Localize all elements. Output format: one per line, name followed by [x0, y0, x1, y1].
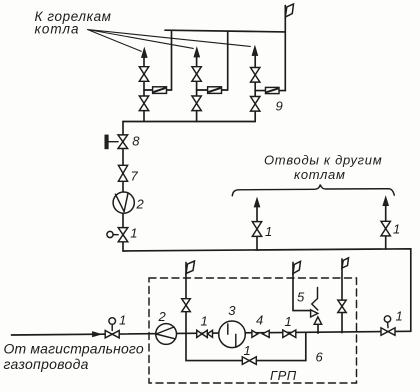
valve branch2 upper [192, 67, 201, 82]
arrow to burner 3 [252, 46, 258, 56]
text: К горелкам котла [35, 9, 112, 37]
valve branch3 lower (9) [251, 97, 260, 112]
svg-text:7: 7 [131, 169, 139, 184]
burner branch 1 pipe [143, 52, 145, 122]
svg-text:1: 1 [119, 313, 126, 328]
outlet valve 1c (plug handle) [387, 322, 389, 328]
vent riser 1 pipe (GRP) [185, 263, 187, 335]
callout leader lines to burner branches [88, 30, 251, 52]
arrow branch L [254, 198, 260, 207]
svg-text:котлам: котлам [294, 167, 346, 182]
svg-text:3: 3 [228, 303, 236, 318]
text: Отводы к другим котлам [264, 153, 382, 183]
vent flag riser 2 [293, 261, 301, 273]
svg-text:Отводы к другим: Отводы к другим [264, 153, 382, 168]
burner manifold pipe [123, 121, 255, 123]
orifice fitting branch1 [153, 87, 167, 94]
inlet/outlet main pipe [12, 331, 411, 335]
svg-text:2: 2 [158, 309, 167, 324]
valve on riser 3 [338, 300, 346, 312]
arrow branch R [383, 197, 389, 206]
valve branch3 upper [251, 68, 260, 83]
svg-text:1: 1 [130, 226, 137, 241]
vent flag riser 1 [186, 261, 195, 274]
flow arrow (inlet) [93, 332, 102, 337]
svg-text:8: 8 [132, 134, 140, 149]
vent riser 3 pipe [341, 259, 343, 333]
valve branch R [381, 221, 390, 236]
connector branch3 to orifice [255, 90, 285, 92]
bypass pipe [186, 333, 306, 360]
svg-text:котла: котла [35, 22, 80, 37]
burner header pipe [165, 30, 285, 32]
connector branch2 to orifice [197, 89, 228, 91]
distribution pipe [123, 249, 411, 331]
svg-text:1: 1 [285, 314, 292, 329]
boiler branch L pipe [256, 203, 258, 250]
brace [232, 185, 394, 196]
orifice fitting branch2 [208, 87, 222, 94]
vent flag (top right) [285, 4, 293, 17]
svg-text:ГРП: ГРП [270, 368, 297, 383]
svg-text:5: 5 [297, 290, 305, 305]
svg-text:газопровода: газопровода [4, 356, 89, 372]
svg-text:4: 4 [256, 313, 263, 328]
relief valve lever/spring [312, 288, 318, 311]
text: От магистрального газопровода [4, 341, 144, 373]
svg-text:1: 1 [244, 343, 251, 358]
drop pipe from header to branch 2 [227, 32, 229, 90]
vent flag riser 3 [342, 258, 349, 268]
valve 1a (GRP inlet line) [197, 330, 208, 337]
connector branch1 to orifice [144, 89, 172, 91]
relief valve 5 (angle valve) [311, 310, 322, 325]
svg-text:1: 1 [396, 309, 403, 324]
burner branch 2 pipe [196, 52, 198, 122]
valve branch L [252, 222, 261, 237]
valve branch2 lower [192, 96, 201, 111]
valve on riser 1 [182, 299, 191, 312]
filter circle 2 (GRP) [156, 324, 177, 345]
orifice fitting branch3 [266, 87, 280, 93]
valve 1b [283, 330, 296, 338]
relief valve outlet pipe [317, 324, 319, 333]
drop pipe from header to branch 1 [171, 30, 173, 90]
vent riser pipe (top right) [284, 6, 286, 91]
burner branch 3 pipe [254, 50, 256, 122]
valve branch1 lower [139, 96, 148, 111]
svg-text:2: 2 [136, 197, 145, 212]
valve 7 [118, 165, 127, 181]
valve 1 (left column, plug handle) [113, 234, 118, 236]
svg-text:От магистрального: От магистрального [4, 341, 144, 357]
bypass valve 1 [242, 357, 256, 365]
flow arrow 4 [263, 330, 270, 337]
regulator left seat [208, 330, 213, 337]
svg-text:1: 1 [393, 222, 400, 237]
meter/filter circle 2 (left column) [113, 192, 134, 213]
arrow to burner 1 [142, 48, 148, 58]
valve 8 (with T-bar handle) [108, 141, 118, 143]
pressure regulator circle 3 [219, 321, 246, 348]
GRP dashed enclosure [149, 278, 357, 383]
svg-text:1: 1 [265, 224, 272, 239]
regulator right seat [252, 330, 258, 337]
boiler branch R pipe [385, 202, 387, 250]
relief valve 5 piping [293, 263, 311, 311]
inlet valve 1 (plug handle) [111, 324, 113, 330]
valve branch1 upper [139, 67, 148, 82]
svg-text:6: 6 [316, 350, 324, 365]
arrow to burner 2 [194, 48, 200, 58]
left riser pipe [122, 122, 124, 252]
svg-text:9: 9 [276, 99, 283, 114]
svg-text:1: 1 [201, 314, 208, 329]
